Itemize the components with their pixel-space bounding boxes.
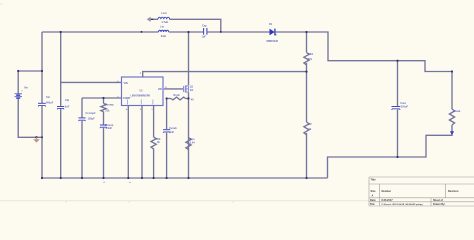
svg-text:A: A [372,195,374,198]
svg-text:400uF: 400uF [46,102,54,105]
svg-text:Number: Number [382,190,391,193]
svg-text:21k: 21k [105,109,110,112]
svg-text:220uF: 220uF [401,106,409,109]
svg-text:Cap: Cap [202,24,207,27]
svg-text:U1: U1 [140,90,144,93]
svg-text:8.06.2017: 8.06.2017 [382,199,394,202]
svg-text:Cin: Cin [46,96,51,99]
svg-text:5: 5 [140,73,142,75]
svg-text:40: 40 [191,98,194,101]
svg-text:VIN: VIN [124,82,128,85]
svg-text:Lin: Lin [160,25,164,28]
svg-text:Revision: Revision [448,190,459,193]
svg-text:D1: D1 [269,23,273,26]
svg-text:Rcomp: Rcomp [105,103,114,106]
svg-text:LM3478MM/NOPB: LM3478MM/NOPB [131,94,151,97]
svg-text:DR: DR [158,88,162,91]
svg-text:R2: R2 [309,123,313,126]
svg-text:Vin: Vin [24,87,28,90]
svg-text:Title: Title [371,179,377,182]
svg-text:File:: File: [370,203,375,206]
svg-text:Cfp: Cfp [65,99,70,102]
svg-text:57k: 57k [308,58,313,61]
svg-text:1uF: 1uF [202,35,207,38]
svg-text:120pF: 120pF [88,118,96,121]
svg-text:Rload: Rload [453,110,460,113]
svg-text:3k: 3k [157,141,160,144]
svg-text:Lout: Lout [161,12,167,15]
svg-text:3.9nF: 3.9nF [106,127,113,130]
svg-text:Size: Size [371,190,377,193]
svg-text:1nF: 1nF [170,131,175,134]
svg-text:+: + [21,90,23,93]
svg-text:3nF: 3nF [65,105,70,108]
svg-text:Rfb1: Rfb1 [308,53,314,56]
svg-text:4.7uH: 4.7uH [161,21,168,24]
svg-text:Q1: Q1 [190,86,194,89]
svg-text:0.04: 0.04 [190,142,195,145]
svg-text:C:\Users\..\2017-06-08_04.34.0: C:\Users\..\2017-06-08_04.34.04C.pdsprj [382,203,424,206]
svg-text:Date:: Date: [370,199,376,202]
svg-text:MBRS340: MBRS340 [267,40,279,43]
svg-text:1k: 1k [309,128,312,131]
svg-text:Rsnb: Rsnb [174,94,181,97]
svg-text:Csnub: Csnub [169,127,177,130]
svg-text:COMP: COMP [123,97,131,100]
svg-text:-: - [22,98,23,101]
svg-text:Drawn By:: Drawn By: [433,203,446,206]
svg-text:Si4: Si4 [190,89,194,92]
svg-text:3mH: 3mH [161,35,167,38]
svg-text:Ccomp2: Ccomp2 [86,112,96,115]
svg-text:Sheet of: Sheet of [433,199,443,202]
